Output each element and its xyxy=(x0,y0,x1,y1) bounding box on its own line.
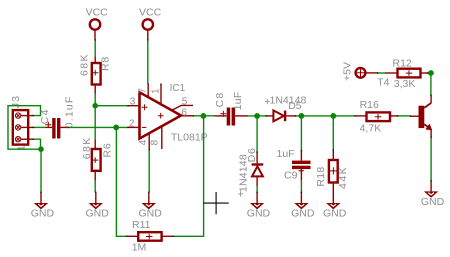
wire: D6 to GND xyxy=(256,186,258,192)
ground GND (under T4) xyxy=(421,181,445,208)
wire: R6 to GND xyxy=(94,181,96,193)
svg-text:R8: R8 xyxy=(99,56,111,71)
svg-text:C8: C8 xyxy=(214,92,226,108)
wire: feedback vertical down to R11 xyxy=(116,127,126,236)
node junction J3/GND xyxy=(38,146,44,152)
svg-text:GND: GND xyxy=(421,196,445,208)
capacitor C4 xyxy=(33,118,68,139)
svg-text:7: 7 xyxy=(137,88,148,94)
svg-text:GND: GND xyxy=(31,208,55,220)
svg-text:6: 6 xyxy=(181,107,187,118)
wire: node to op-amp pin 3 xyxy=(95,105,128,107)
svg-text:T4: T4 xyxy=(377,77,389,89)
connector J3 xyxy=(13,110,28,145)
svg-text:TL081P: TL081P xyxy=(171,132,208,144)
wire: R8 to node xyxy=(94,94,96,106)
transistor T4 xyxy=(411,95,433,137)
svg-text:3,3K: 3,3K xyxy=(394,78,416,90)
node junction D5/D6 xyxy=(254,113,260,119)
wire: +5V to R12 xyxy=(378,72,386,74)
svg-text:4,7K: 4,7K xyxy=(360,122,382,134)
svg-text:0.1uF: 0.1uF xyxy=(64,95,76,128)
op-amp pin 6 (output) xyxy=(181,115,193,117)
svg-text:R18: R18 xyxy=(315,166,327,186)
svg-text:C4: C4 xyxy=(39,108,51,124)
wire: D5 to C9 node xyxy=(296,115,356,117)
node junction C9 xyxy=(299,113,305,119)
wire: T4 emitter to GND xyxy=(430,137,432,181)
wire: node down to T4 collector xyxy=(430,73,432,95)
svg-text:GND: GND xyxy=(86,208,110,220)
svg-text:R16: R16 xyxy=(360,99,379,111)
ground GND (under C9) xyxy=(291,192,315,219)
svg-text:5: 5 xyxy=(182,97,188,108)
svg-text:1uF: 1uF xyxy=(277,148,295,160)
op-amp pin 5 (offset) xyxy=(172,105,193,110)
svg-text:R11: R11 xyxy=(132,219,151,231)
wire: VCC to op-amp pin 7 xyxy=(147,40,149,84)
node junction R8/R6/pin3 xyxy=(92,103,98,109)
wire: node down to D6 xyxy=(256,116,258,152)
svg-text:1M: 1M xyxy=(132,241,147,253)
svg-text:C9: C9 xyxy=(284,170,298,182)
ground GND (under D6) xyxy=(247,192,271,219)
wire: feedback vertical output to R11 xyxy=(173,116,203,236)
svg-text:VCC: VCC xyxy=(86,7,109,19)
op-amp pin 7 xyxy=(147,84,149,98)
svg-text:VCC: VCC xyxy=(139,7,162,19)
svg-text:+5V: +5V xyxy=(342,62,354,81)
capacitor C8 xyxy=(215,108,249,126)
svg-text:3: 3 xyxy=(130,96,136,107)
ground GND (under R18) xyxy=(323,203,347,220)
svg-text:1: 1 xyxy=(16,145,27,151)
wire: J3 top pad loop to left xyxy=(8,106,41,150)
ground GND (under R6) xyxy=(86,192,110,219)
power VCC (right) xyxy=(139,7,162,40)
svg-text:44K: 44K xyxy=(337,166,349,189)
svg-text:D5: D5 xyxy=(288,100,302,112)
D5 origin cross xyxy=(265,99,270,104)
J3 pad 2 (middle) xyxy=(15,125,33,130)
svg-text:8: 8 xyxy=(150,139,161,145)
resistor R6 xyxy=(92,140,101,181)
svg-text:R12: R12 xyxy=(393,57,412,69)
wire transition ticks xyxy=(41,39,431,193)
op-amp pin 4 xyxy=(148,133,150,149)
resistor R8 xyxy=(92,57,101,94)
J3 pad 3 (top) xyxy=(15,113,33,118)
svg-text:D6: D6 xyxy=(246,147,258,162)
resistor R12 xyxy=(385,69,428,78)
wire: node down to R6 xyxy=(94,106,96,140)
op-amp IC1 TL081P xyxy=(140,92,182,138)
resistor R18 xyxy=(329,150,338,203)
wire: junction down to GND xyxy=(40,149,42,192)
capacitor C9 xyxy=(292,151,311,181)
svg-text:4: 4 xyxy=(138,139,149,145)
node junction output/feedback xyxy=(201,113,207,119)
wire: node down to C9 xyxy=(300,116,302,151)
J3 pad 1 (bottom) xyxy=(15,137,33,142)
node junction R12/collector xyxy=(428,70,434,76)
wire: C8 to D5 node xyxy=(248,115,266,117)
svg-text:GND: GND xyxy=(247,208,271,220)
wire: R16 to T4 base xyxy=(398,115,411,117)
wire: R12 to collector node xyxy=(428,72,431,74)
wire: C9 to GND xyxy=(300,180,302,192)
op-amp pin 1 (offset) xyxy=(160,84,162,105)
node junction pin2/feedback xyxy=(113,125,119,131)
op-amp pin 2 xyxy=(128,126,140,128)
ground GND (under J3) xyxy=(31,192,55,219)
wire: node down to R18 xyxy=(332,116,334,150)
op-amp pin 8 (offset) xyxy=(161,125,163,149)
svg-text:68K: 68K xyxy=(81,136,93,159)
svg-text:R6: R6 xyxy=(101,142,113,157)
svg-text:IC1: IC1 xyxy=(170,83,186,94)
wire: op-amp output xyxy=(193,115,215,117)
svg-text:1uF: 1uF xyxy=(232,91,244,110)
node junction R18 xyxy=(330,113,336,119)
wire: pin 4 to GND xyxy=(148,149,150,192)
svg-text:GND: GND xyxy=(291,208,315,220)
D6 origin cross xyxy=(238,191,243,196)
resistor R16 xyxy=(355,112,398,121)
wire: VCC to R8 xyxy=(94,40,96,57)
resistor R11 xyxy=(127,232,174,241)
svg-text:1: 1 xyxy=(151,88,162,94)
svg-text:GND: GND xyxy=(139,208,163,220)
power +5V xyxy=(342,62,378,81)
svg-text:2: 2 xyxy=(129,118,135,129)
svg-text:GND: GND xyxy=(323,208,347,220)
power VCC (left) xyxy=(86,7,109,40)
diode D5 1N4148 xyxy=(266,110,296,121)
sheet marker cross xyxy=(204,192,229,214)
wire: C4 to op-amp pin 2 xyxy=(68,126,128,128)
ground GND (under IC1) xyxy=(139,192,163,219)
svg-text:68K: 68K xyxy=(79,53,91,76)
op-amp pin 3 xyxy=(128,105,140,107)
diode D6 1N4148 xyxy=(252,152,264,186)
wire: J3 bottom pad to junction xyxy=(33,139,41,149)
